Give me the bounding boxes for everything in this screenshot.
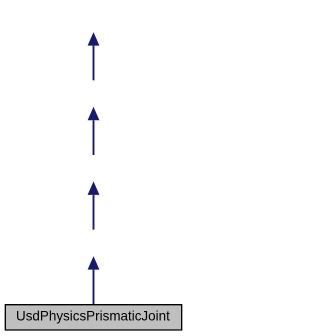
arrow 2 shaft — [93, 120, 95, 155]
arrow 1 (top) to hidden ancestor: head — [88, 32, 100, 45]
arrow 2: head — [88, 107, 100, 120]
class box UsdPhysicsPrismaticJoint — [5, 305, 181, 330]
arrow 3 shaft — [93, 195, 95, 230]
arrow 4 (bottom): head — [88, 256, 100, 269]
inheritance graph: UsdPhysicsPrismaticJoint (doxygen/graphviz) — [0, 0, 187, 336]
arrow 1 shaft — [93, 46, 95, 81]
svg-text:UsdPhysicsPrismaticJoint: UsdPhysicsPrismaticJoint — [16, 308, 170, 324]
arrow 3: head — [88, 181, 100, 194]
arrow 4 shaft — [93, 270, 95, 305]
